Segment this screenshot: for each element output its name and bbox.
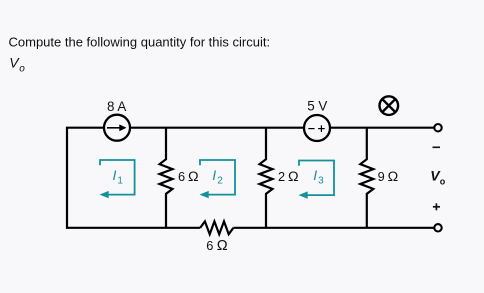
svg-text:2: 2 (217, 176, 223, 187)
svg-text:Ω: Ω (217, 238, 228, 254)
svg-text:5 V: 5 V (307, 98, 327, 113)
svg-text:6: 6 (178, 169, 185, 184)
svg-text:Compute the following quantity: Compute the following quantity for this … (9, 34, 271, 49)
svg-text:Ω: Ω (188, 169, 199, 185)
svg-text:Ω: Ω (288, 169, 299, 185)
svg-text:3: 3 (318, 176, 324, 187)
svg-text:I: I (113, 167, 117, 183)
svg-text:I: I (212, 167, 216, 183)
svg-text:6: 6 (206, 238, 213, 253)
svg-text:I: I (313, 167, 317, 183)
svg-text:9: 9 (378, 169, 385, 184)
svg-text:o: o (19, 64, 25, 75)
svg-text:2: 2 (278, 169, 285, 184)
svg-text:1: 1 (117, 176, 123, 187)
svg-text:o: o (440, 176, 446, 186)
svg-text:Ω: Ω (388, 169, 399, 185)
svg-text:8 A: 8 A (107, 99, 126, 114)
